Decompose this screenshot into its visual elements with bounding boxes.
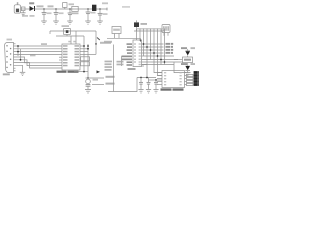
capacitor C1 <box>42 9 47 21</box>
fuse F1 <box>63 3 74 9</box>
wire (crossover vertical B) <box>20 49 22 60</box>
DB9 pins <box>6 45 11 68</box>
node VCC <box>106 8 108 11</box>
node <box>87 77 89 79</box>
capacitor C9 <box>147 78 151 90</box>
label (below MCU) <box>128 68 136 70</box>
wire (driver left pin 1) <box>157 72 162 74</box>
label (driver IC part number band) <box>161 88 184 90</box>
wire (bus vertical 7) <box>158 29 163 76</box>
wire (charge pump vertical 1) <box>83 36 85 72</box>
MCU right pin row 2 <box>142 46 164 48</box>
label <box>100 42 111 44</box>
label D1 value <box>22 15 28 17</box>
wire (bus vertical 3) <box>143 29 145 56</box>
wire (MAX232 right pin 1) <box>80 45 84 47</box>
label C1 <box>48 5 54 7</box>
wire (to crystal) <box>87 72 89 78</box>
label C4 value <box>91 12 96 14</box>
wire (staircase 2) <box>14 60 63 66</box>
node <box>157 55 159 57</box>
wire (MCU bottom pin) <box>142 64 148 66</box>
MCU right pin row 6 <box>142 59 179 61</box>
label XTAL1 <box>106 76 115 78</box>
LED D7 <box>194 74 199 77</box>
op-amp U3 (MAX232 body) <box>62 44 80 70</box>
wire (bus vertical 2) <box>139 29 141 40</box>
label (net rows right of vertical) <box>117 61 124 65</box>
label VCC <box>102 2 108 4</box>
node <box>17 45 19 47</box>
op-amp U4 (driver IC) <box>162 71 185 88</box>
wire (driver left pin 4) <box>157 81 162 83</box>
ground <box>67 21 73 24</box>
DB9 connector P1 <box>3 39 14 76</box>
label (between DB9 and MAX232) <box>30 55 36 57</box>
diode D3 <box>62 25 71 36</box>
label VIN <box>37 5 44 7</box>
ground <box>138 89 143 93</box>
label C6 value <box>103 13 108 15</box>
label (pin numbers inside MCU) <box>134 43 141 65</box>
wire <box>142 65 145 67</box>
label C1 value <box>47 12 52 14</box>
label D1 <box>29 2 34 4</box>
label <box>104 41 112 43</box>
wire <box>70 36 72 44</box>
label (net names right of bus) <box>166 43 174 54</box>
label (pin numbers above bus) <box>136 28 165 30</box>
ground (under switch) <box>21 11 26 16</box>
node <box>143 43 145 45</box>
MCU right pin row 7 <box>142 61 184 63</box>
wire <box>80 48 88 50</box>
node <box>83 45 85 47</box>
node <box>160 59 162 61</box>
MCU right pin row 3 <box>142 49 164 51</box>
wire (crossover vertical A) <box>17 46 19 56</box>
node <box>146 77 148 79</box>
wire (bus vertical 1) <box>136 29 138 40</box>
LED D6 <box>194 71 199 74</box>
connector J1 (DC power jack) <box>14 2 20 13</box>
wire (driver right pin 5) <box>185 84 187 86</box>
label (above MAX232) <box>41 43 47 45</box>
diode D1 <box>30 6 36 11</box>
wire <box>92 84 104 86</box>
wire (DB9 bottom pin stubs) <box>14 67 16 69</box>
capacitor C3 <box>68 9 73 21</box>
wire <box>95 44 97 54</box>
node <box>95 43 97 45</box>
capacitor C5 (electrolytic, dark body) <box>92 5 96 11</box>
MCU right pin row 8 <box>142 64 175 66</box>
wire (bus top rail) <box>134 30 165 32</box>
diode D9 (on ground bus) <box>97 70 101 73</box>
wire (bus vertical 4) <box>146 29 148 78</box>
node <box>83 71 85 73</box>
capacitor C8 <box>139 78 143 90</box>
LED D10 <box>194 83 199 86</box>
ground <box>153 89 158 93</box>
wire (driver right pin 3) <box>185 78 187 80</box>
wire <box>140 38 142 42</box>
wire (driver right pin 4) <box>185 81 187 83</box>
wire (pin stub) <box>59 56 62 58</box>
wire <box>49 31 51 34</box>
capacitor C12 (box) <box>81 62 90 66</box>
wire (DB9 ground pin) <box>14 65 23 72</box>
wire (charge pump vertical 2) <box>87 44 89 72</box>
wire <box>14 53 63 55</box>
regulator U2 78L05 <box>72 6 79 14</box>
ground <box>97 21 103 24</box>
resistor R9 <box>187 83 194 85</box>
node <box>87 45 89 47</box>
label (diode chain lower) <box>181 63 187 65</box>
diode D5 <box>185 63 190 73</box>
label XTAL2 <box>106 83 115 85</box>
label (top right of power section) <box>122 6 130 8</box>
wire <box>80 53 96 55</box>
MCU right pin row 5 <box>142 55 175 57</box>
capacitor C6 <box>98 9 103 21</box>
connector J2 (3-pin header, top right) <box>162 25 170 36</box>
wire <box>14 51 63 53</box>
node <box>140 39 142 41</box>
label (MCU left pin names) <box>122 43 133 65</box>
capacitor C10 <box>154 80 158 89</box>
label (net rows left of vertical) <box>105 61 113 71</box>
crystal Y1 (dark body near MCU top) <box>134 20 147 31</box>
wire (staircase 1) <box>14 57 63 63</box>
wire <box>149 79 163 81</box>
MCU right pin row 1 <box>142 43 164 45</box>
node <box>164 61 166 63</box>
wire (DB9 top pin stub) <box>14 43 16 45</box>
node <box>87 48 89 50</box>
wire (driver right pin 2) <box>185 75 187 77</box>
wire (driver left pin 5) <box>157 84 162 86</box>
MCU right pin row 4 <box>142 52 164 54</box>
node <box>146 46 148 48</box>
resistor R8 <box>187 80 194 82</box>
resistor R5 (box) <box>183 57 193 63</box>
label (MAX232 left pin names) <box>63 45 68 66</box>
switch S1 <box>21 7 25 11</box>
wire <box>56 35 84 37</box>
crystal Y2 <box>86 78 98 89</box>
label (MAX232 right pin names) <box>75 45 80 66</box>
node <box>140 77 142 79</box>
wire <box>75 31 77 44</box>
wire (DB9 pin2 to MAX232) <box>14 45 63 47</box>
node mark <box>97 38 100 41</box>
resistor R6 <box>187 74 194 76</box>
wire <box>80 51 88 53</box>
wire <box>107 37 141 39</box>
wire (driver right pin 1) <box>185 72 187 74</box>
wire (left net stub) <box>121 56 123 66</box>
node <box>17 51 19 53</box>
switch S2 (reset) <box>112 27 121 39</box>
label (inside driver IC) <box>164 72 182 85</box>
wire (bus vertical 6) <box>154 29 162 73</box>
wire (driver left pin 2) <box>157 75 162 77</box>
capacitor C4 <box>86 9 91 21</box>
wire <box>21 8 30 10</box>
wire (DB9 pin3 to MAX232) <box>14 48 63 50</box>
label <box>191 63 196 65</box>
ground <box>53 21 59 24</box>
diode D4 <box>185 49 190 57</box>
label (MAX232 top pin refs) <box>68 41 70 43</box>
LED D8 <box>194 77 199 80</box>
wire (pin stub) <box>59 59 62 61</box>
node <box>43 8 100 9</box>
ground <box>146 89 151 93</box>
label MAX232 <box>57 71 79 73</box>
wire <box>95 31 97 44</box>
wire (net vertical) <box>113 45 115 92</box>
ground <box>85 89 91 93</box>
label (diode chain top) <box>181 47 187 49</box>
node <box>150 49 152 51</box>
wire (rail to MAX232 top) <box>50 30 96 32</box>
wire <box>86 77 105 79</box>
wire (bus vertical 9) <box>164 29 166 65</box>
wire (main +V rail) <box>35 8 108 10</box>
ground <box>41 21 47 24</box>
wire (driver left pin 3) <box>157 78 162 80</box>
wire (row into chain bottom) <box>174 62 185 73</box>
ground <box>185 73 191 76</box>
wire (bus vertical 8) <box>160 29 162 65</box>
op-amp U1 (MCU body) <box>133 40 142 67</box>
resistor R7 <box>187 77 194 79</box>
node <box>153 52 155 54</box>
wire (bottom long run) <box>108 78 137 92</box>
capacitor C2 <box>54 9 59 21</box>
node <box>155 79 157 81</box>
label C2 value <box>59 12 64 14</box>
wire (MAX232 to crystal) <box>74 71 88 73</box>
wire (row to resistor box) <box>174 59 183 61</box>
wire (osc caps top rail) <box>137 77 156 79</box>
wire (staircase 3) <box>14 63 63 69</box>
LED D9 <box>194 80 199 83</box>
capacitor C11 (box) <box>81 57 90 61</box>
ground (DB9 shield) <box>20 72 26 75</box>
node <box>20 59 22 61</box>
ground <box>85 21 91 24</box>
label <box>191 47 196 49</box>
wire (bus vertical 5) <box>150 29 152 60</box>
